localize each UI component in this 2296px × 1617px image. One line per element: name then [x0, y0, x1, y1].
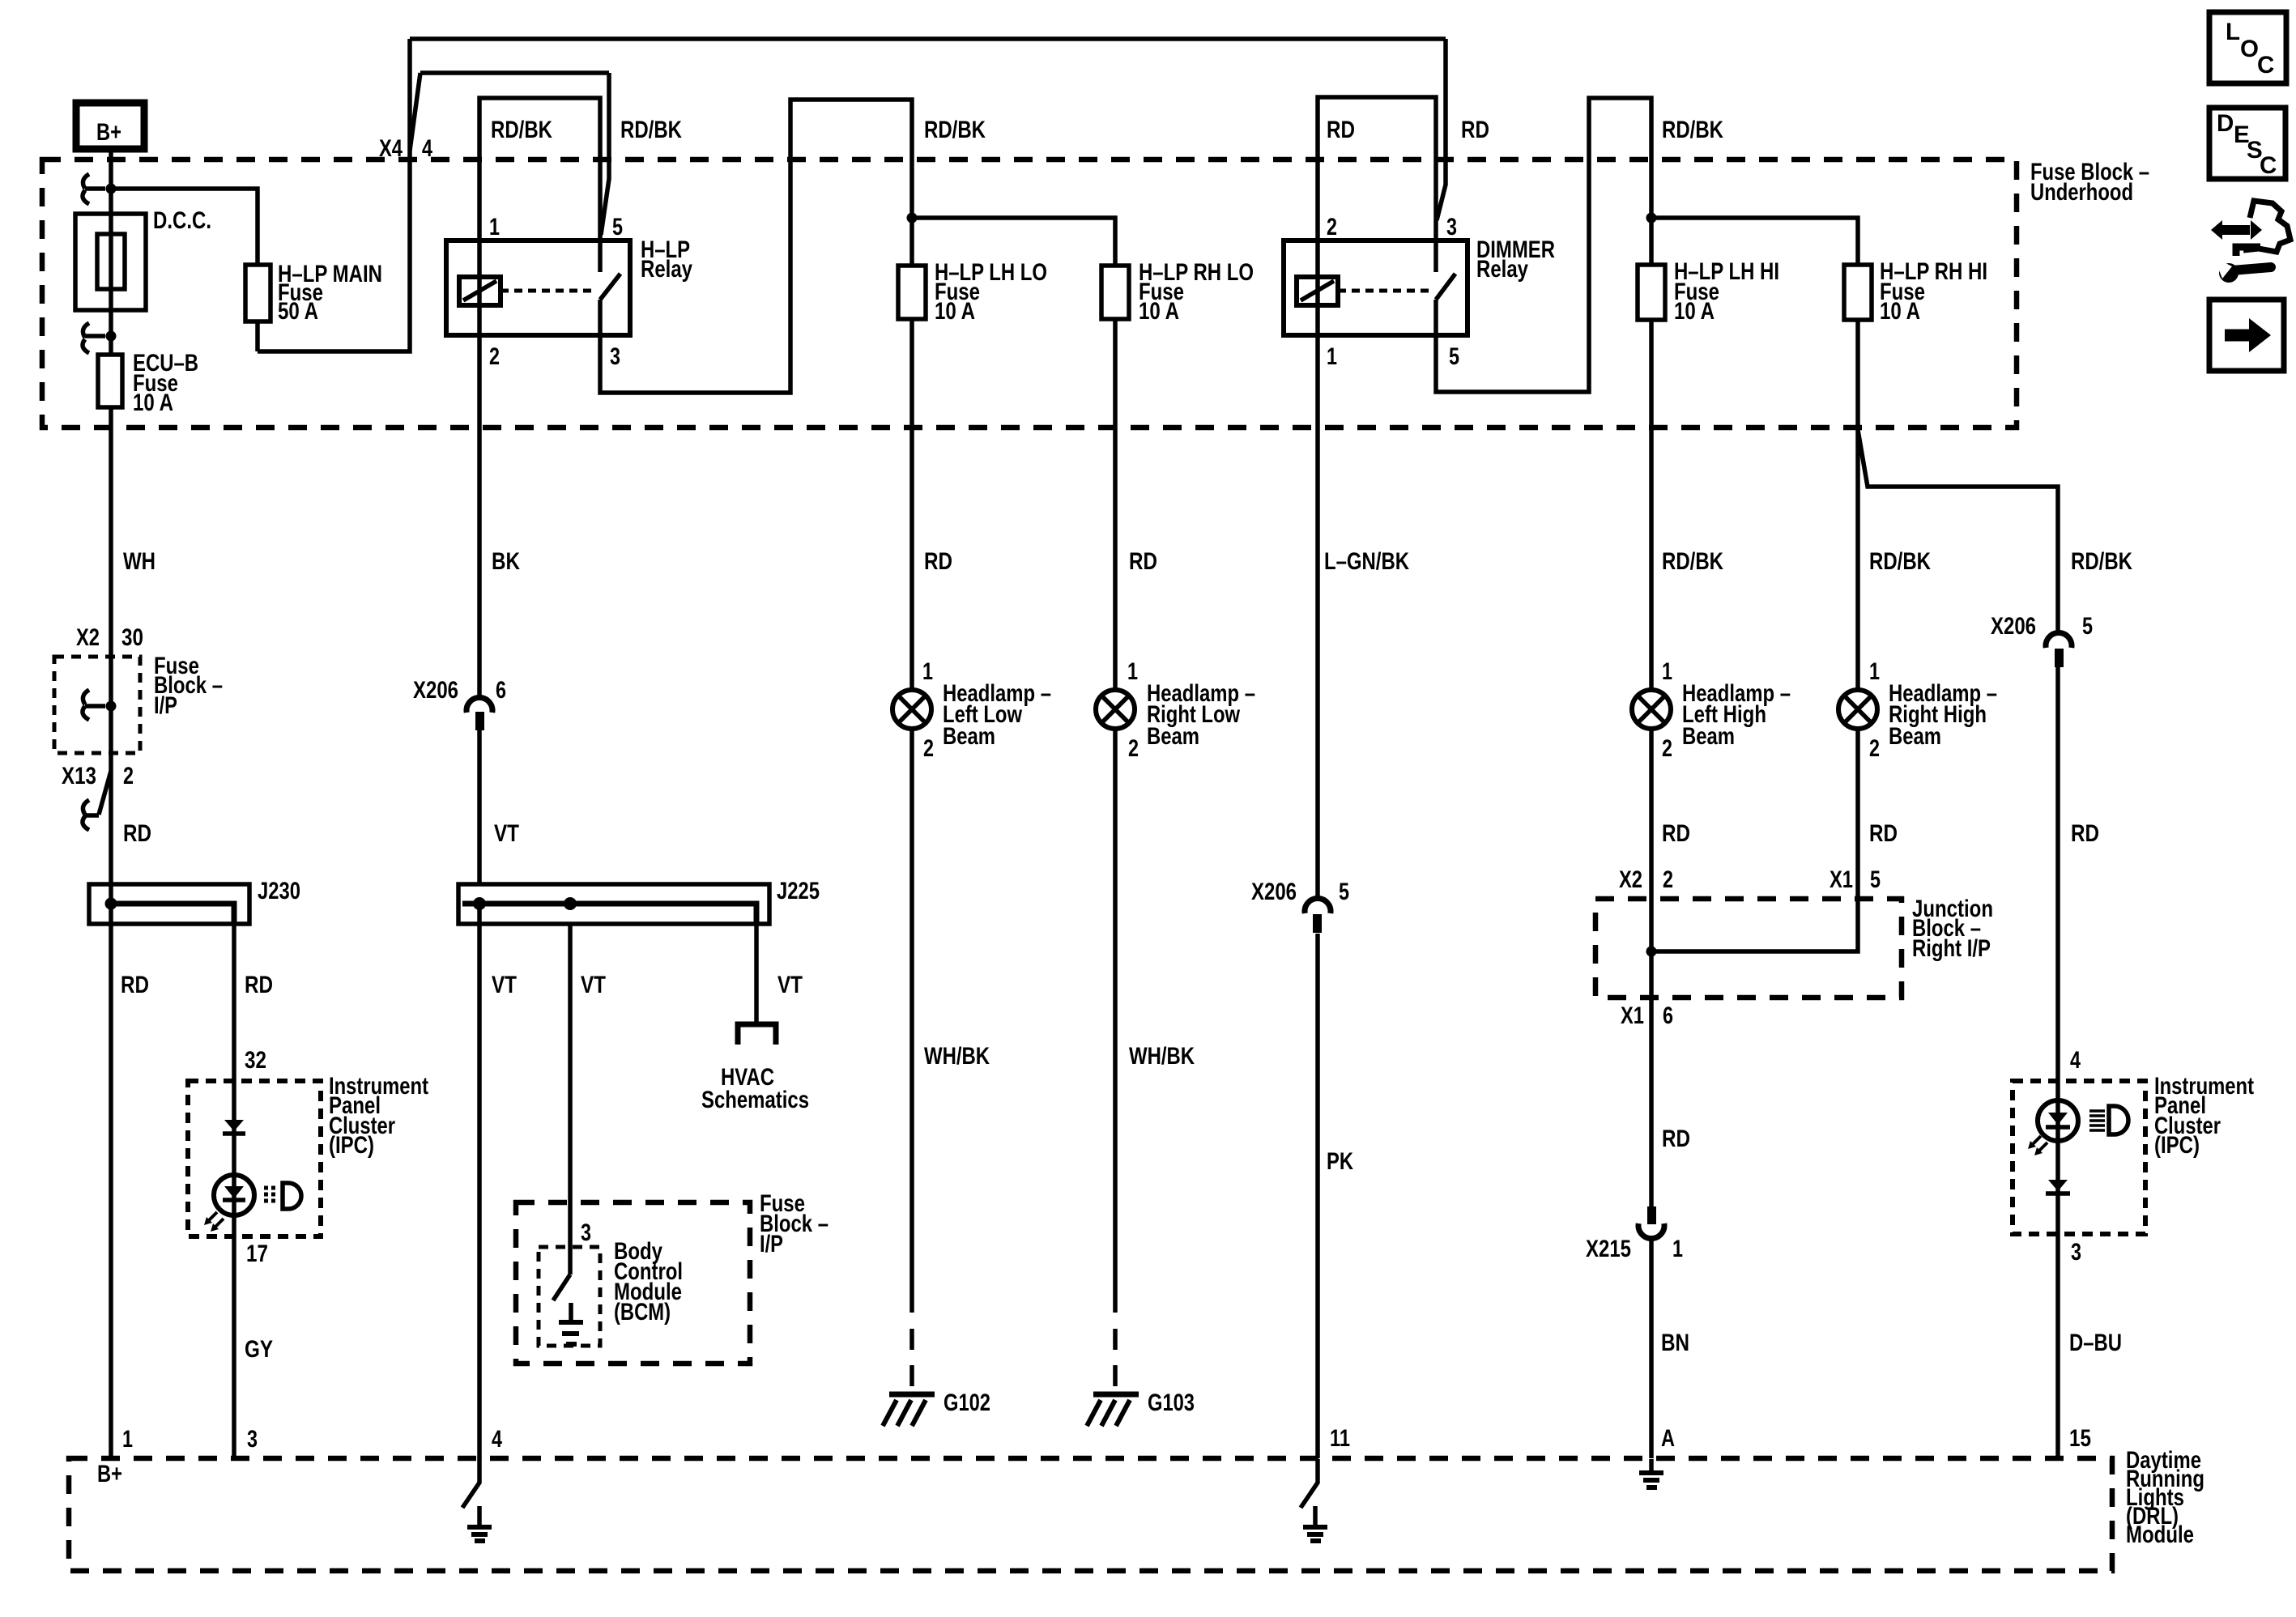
svg-text:2: 2 — [1869, 735, 1880, 762]
svg-text:BK: BK — [492, 548, 521, 575]
svg-text:RD: RD — [2071, 820, 2099, 847]
svg-text:3: 3 — [610, 343, 620, 370]
svg-text:A: A — [1661, 1425, 1675, 1452]
svg-text:X1: X1 — [1830, 866, 1853, 893]
svg-text:RD/BK: RD/BK — [2071, 548, 2133, 575]
svg-text:6: 6 — [1663, 1002, 1673, 1029]
svg-text:Beam: Beam — [943, 723, 995, 750]
svg-text:WH/BK: WH/BK — [1129, 1043, 1195, 1070]
svg-text:Module: Module — [2126, 1521, 2194, 1548]
svg-text:RD: RD — [1129, 548, 1157, 575]
svg-text:5: 5 — [1870, 866, 1881, 893]
svg-text:17: 17 — [246, 1240, 268, 1267]
svg-text:1: 1 — [489, 214, 500, 240]
svg-text:5: 5 — [612, 214, 623, 240]
svg-text:WH: WH — [123, 548, 155, 575]
svg-text:Relay: Relay — [641, 256, 692, 283]
svg-text:BN: BN — [1661, 1330, 1689, 1356]
svg-text:(BCM): (BCM) — [614, 1299, 671, 1326]
svg-text:I/P: I/P — [760, 1231, 783, 1257]
svg-text:Beam: Beam — [1682, 723, 1735, 750]
svg-text:15: 15 — [2069, 1425, 2091, 1452]
svg-text:X4: X4 — [379, 135, 403, 162]
svg-text:VT: VT — [777, 972, 803, 998]
svg-text:10 A: 10 A — [133, 389, 173, 416]
svg-text:2: 2 — [123, 763, 134, 789]
svg-text:Beam: Beam — [1889, 723, 1941, 750]
svg-text:C: C — [2260, 152, 2277, 179]
svg-text:I/P: I/P — [154, 692, 177, 719]
svg-text:X2: X2 — [76, 624, 100, 651]
svg-text:5: 5 — [1449, 343, 1459, 370]
svg-text:D: D — [2217, 110, 2234, 137]
svg-text:RD/BK: RD/BK — [924, 117, 986, 143]
svg-text:1: 1 — [1672, 1236, 1683, 1262]
svg-text:L: L — [2226, 19, 2240, 45]
svg-text:4: 4 — [2070, 1047, 2081, 1074]
svg-text:4: 4 — [492, 1426, 502, 1453]
svg-text:G102: G102 — [944, 1389, 990, 1416]
svg-text:RD: RD — [1662, 820, 1690, 847]
svg-text:RD/BK: RD/BK — [620, 117, 683, 143]
svg-text:Underhood: Underhood — [2030, 179, 2133, 206]
svg-text:PK: PK — [1327, 1148, 1354, 1175]
svg-text:RD: RD — [1662, 1126, 1690, 1152]
svg-text:X13: X13 — [62, 763, 96, 789]
svg-text:1: 1 — [922, 658, 933, 685]
svg-text:B+: B+ — [96, 119, 121, 146]
svg-text:5: 5 — [2082, 613, 2093, 640]
svg-text:11: 11 — [1330, 1425, 1350, 1452]
svg-text:1: 1 — [1662, 658, 1672, 685]
svg-text:RD: RD — [1869, 820, 1898, 847]
svg-text:C: C — [2257, 52, 2274, 79]
svg-text:10 A: 10 A — [935, 298, 975, 325]
svg-text:L–GN/BK: L–GN/BK — [1324, 548, 1410, 575]
svg-text:RD: RD — [245, 972, 273, 998]
svg-text:J230: J230 — [258, 878, 300, 904]
svg-text:RD: RD — [924, 548, 952, 575]
svg-text:1: 1 — [1327, 343, 1337, 370]
svg-text:Beam: Beam — [1147, 723, 1199, 750]
svg-text:50 A: 50 A — [278, 298, 318, 325]
svg-text:4: 4 — [422, 135, 432, 162]
svg-text:6: 6 — [496, 677, 506, 704]
svg-text:RD: RD — [121, 972, 149, 998]
svg-text:VT: VT — [581, 972, 606, 998]
svg-text:X206: X206 — [413, 677, 458, 704]
svg-text:RD/BK: RD/BK — [1662, 117, 1724, 143]
svg-text:GY: GY — [245, 1336, 273, 1363]
svg-text:2: 2 — [1663, 866, 1673, 893]
svg-text:1: 1 — [122, 1426, 133, 1453]
svg-text:X1: X1 — [1621, 1002, 1644, 1029]
svg-text:3: 3 — [581, 1219, 591, 1246]
svg-text:RD/BK: RD/BK — [491, 117, 553, 143]
svg-text:10 A: 10 A — [1880, 298, 1920, 325]
svg-text:X206: X206 — [1991, 613, 2036, 640]
svg-text:WH/BK: WH/BK — [924, 1043, 990, 1070]
svg-text:5: 5 — [1339, 879, 1349, 905]
svg-text:G103: G103 — [1148, 1389, 1195, 1416]
svg-text:RD: RD — [1461, 117, 1489, 143]
svg-text:3: 3 — [247, 1426, 258, 1453]
svg-text:2: 2 — [923, 735, 934, 762]
svg-text:10 A: 10 A — [1139, 298, 1179, 325]
svg-text:X2: X2 — [1619, 866, 1642, 893]
svg-text:RD: RD — [123, 820, 151, 847]
svg-text:1: 1 — [1869, 658, 1880, 685]
svg-text:(IPC): (IPC) — [2154, 1132, 2200, 1159]
svg-text:X215: X215 — [1586, 1236, 1631, 1262]
svg-text:1: 1 — [1127, 658, 1138, 685]
svg-text:10 A: 10 A — [1674, 298, 1715, 325]
svg-text:(IPC): (IPC) — [329, 1132, 374, 1159]
svg-text:J225: J225 — [777, 878, 820, 904]
svg-text:VT: VT — [494, 820, 519, 847]
svg-text:2: 2 — [1128, 735, 1139, 762]
svg-text:D–BU: D–BU — [2069, 1330, 2122, 1356]
svg-text:2: 2 — [1662, 735, 1672, 762]
svg-text:VT: VT — [492, 972, 517, 998]
svg-text:2: 2 — [489, 343, 500, 370]
svg-text:Relay: Relay — [1476, 256, 1528, 283]
svg-text:32: 32 — [245, 1047, 266, 1074]
svg-text:RD/BK: RD/BK — [1869, 548, 1932, 575]
svg-text:2: 2 — [1327, 214, 1337, 240]
svg-text:3: 3 — [2071, 1239, 2081, 1266]
svg-text:Right I/P: Right I/P — [1912, 935, 1991, 962]
svg-text:3: 3 — [1446, 214, 1457, 240]
svg-text:B+: B+ — [97, 1461, 122, 1487]
svg-text:RD/BK: RD/BK — [1662, 548, 1724, 575]
svg-text:X206: X206 — [1251, 879, 1297, 905]
svg-text:D.C.C.: D.C.C. — [153, 207, 211, 234]
svg-text:O: O — [2240, 36, 2259, 62]
svg-text:30: 30 — [121, 624, 143, 651]
svg-text:RD: RD — [1327, 117, 1355, 143]
svg-text:Schematics: Schematics — [701, 1087, 809, 1113]
